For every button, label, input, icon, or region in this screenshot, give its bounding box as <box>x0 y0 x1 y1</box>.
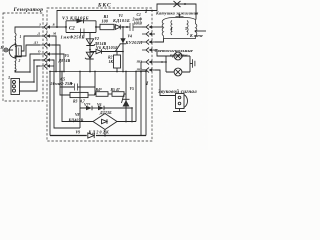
wire r6 inside down <box>142 70 146 136</box>
svg-text:БКС: БКС <box>97 3 112 9</box>
resistor R4 <box>96 92 108 97</box>
contact r4 <box>142 48 155 53</box>
resistor R5 <box>112 92 124 97</box>
wire r4 to lamps top <box>155 50 166 56</box>
diode V6b <box>98 106 104 110</box>
svg-text:V3 КД105Б: V3 КД105Б <box>62 16 89 21</box>
wire row3 to bus <box>52 45 60 72</box>
svg-text:V6 КД105Б: V6 КД105Б <box>96 45 118 50</box>
gate V5 <box>122 94 125 103</box>
svg-text:2: 2 <box>18 59 21 63</box>
thyristor V4 <box>120 38 125 43</box>
switch X <box>174 1 181 7</box>
wire gen row3 <box>15 45 40 58</box>
wire horn feed <box>155 70 176 96</box>
wire r5 inside down <box>141 62 142 136</box>
diode V9 <box>87 133 96 139</box>
main bus <box>50 71 146 73</box>
svg-text:Звуковой сигнал: Звуковой сигнал <box>157 89 197 95</box>
wire to V6 <box>90 50 96 52</box>
capacitor C5 / resistor R3 loop <box>60 72 74 88</box>
node A <box>122 26 124 28</box>
wire K sveche <box>196 30 207 32</box>
wire to R4 <box>95 93 96 95</box>
svg-text:Д1: Д1 <box>33 41 38 45</box>
svg-text:50мкФ 25В: 50мкФ 25В <box>51 81 73 86</box>
wire top bus <box>57 4 196 27</box>
contact r3 <box>142 40 155 45</box>
svg-text:R4*: R4* <box>96 88 102 92</box>
wire gen row6 <box>19 66 40 91</box>
wire row2 to bus <box>52 36 56 72</box>
contact r5 <box>142 60 155 65</box>
svg-text:4: 4 <box>170 27 173 31</box>
wire gen row1 <box>15 27 40 33</box>
thyristor V5 <box>125 72 127 122</box>
svg-text:V6: V6 <box>97 103 102 107</box>
svg-text:1: 1 <box>20 35 22 39</box>
svg-text:Катушка зажигания: Катушка зажигания <box>155 11 199 16</box>
svg-text:КУ202Н: КУ202Н <box>125 40 143 45</box>
contact r6 <box>142 68 155 73</box>
generator dashed box <box>3 13 43 101</box>
svg-text:V5: V5 <box>130 87 135 91</box>
svg-text:К свече: К свече <box>189 33 203 38</box>
connector left column: 6 pin-socket contacts <box>40 25 52 69</box>
wire row5 stub <box>52 60 54 72</box>
capacitor C2 plates <box>81 29 85 37</box>
junction dots generator wires <box>29 71 31 73</box>
svg-text:V5: V5 <box>65 54 70 58</box>
svg-text:Ш2: Ш2 <box>136 60 143 64</box>
resistor R2 <box>114 55 121 68</box>
svg-text:R2: R2 <box>108 56 113 60</box>
node dot on switch wire <box>184 3 186 5</box>
bus node dots <box>55 71 57 73</box>
zener V5 <box>86 52 93 58</box>
ignition coil <box>162 14 197 38</box>
svg-text:КЦ402В: КЦ402В <box>68 118 84 122</box>
bold ground line <box>50 135 146 137</box>
contact row3 <box>40 43 52 48</box>
svg-text:V7*: V7* <box>84 103 90 107</box>
wire row1 into block <box>52 26 66 28</box>
contact row4 <box>40 52 52 57</box>
svg-text:Д814В: Д814В <box>58 59 71 63</box>
diode V1 <box>115 25 120 30</box>
wire row6 stub <box>52 65 54 67</box>
gate V4 <box>116 44 121 51</box>
svg-text:З: З <box>38 23 41 27</box>
BKS dashed box <box>47 8 152 141</box>
diode V7 <box>80 72 86 109</box>
svg-text:R3: R3 <box>73 100 78 104</box>
horn <box>173 94 187 112</box>
wire coil return <box>155 39 164 43</box>
contact r2 <box>142 32 155 37</box>
wire gen row2 <box>21 36 40 51</box>
svg-text:Генератор: Генератор <box>13 7 44 13</box>
svg-text:КД105Б: КД105Б <box>112 18 130 23</box>
svg-text:R5 47: R5 47 <box>111 88 121 92</box>
wire gen row5 <box>19 60 40 82</box>
diode V3 <box>77 18 84 23</box>
coil 3 <box>11 79 20 95</box>
capacitor C2 / diode V3 parallel box <box>66 18 96 36</box>
coil 1 <box>15 33 16 47</box>
svg-text:V9: V9 <box>76 130 81 135</box>
svg-text:3: 3 <box>7 76 10 80</box>
svg-text:V2: V2 <box>95 37 100 41</box>
svg-text:1мкФ250В: 1мкФ250В <box>61 35 85 40</box>
coil 2 <box>15 58 16 72</box>
node tap <box>89 49 91 51</box>
wire primary feed <box>155 26 164 28</box>
node dot top corner <box>56 26 58 28</box>
wire vertical x132 <box>131 108 133 122</box>
generator rotor <box>9 45 16 59</box>
svg-text:С2: С2 <box>69 27 75 32</box>
wire vertical x136 <box>135 72 137 122</box>
junction dots on main wire <box>65 26 67 28</box>
connector right column: 6 contacts <box>142 25 155 73</box>
svg-text:Ш1: Ш1 <box>136 68 143 72</box>
contact r1 <box>142 25 155 30</box>
resistor R3 <box>70 92 88 97</box>
wire bridge right <box>117 121 136 123</box>
wire row4 to bus <box>52 54 64 72</box>
wire <box>8 49 13 51</box>
wire lamp feed <box>155 61 166 63</box>
wire nested return <box>54 72 80 129</box>
svg-text:100: 100 <box>102 18 109 23</box>
svg-text:160В: 160В <box>134 22 143 26</box>
svg-text:1К: 1К <box>109 60 114 64</box>
zener V2 <box>89 33 91 72</box>
capacitor C1 <box>130 23 133 31</box>
resistor R1 <box>100 24 114 29</box>
contact row5 <box>40 58 52 63</box>
contact row2 <box>40 34 52 39</box>
lamps block <box>166 52 195 76</box>
bridge rectifier V8 <box>62 72 93 122</box>
wire gen row4 <box>15 54 40 72</box>
svg-text:КД202К: КД202К <box>88 130 110 135</box>
svg-text:V4: V4 <box>128 35 133 39</box>
svg-text:V8: V8 <box>75 113 80 117</box>
svg-text:Д223Б: Д223Б <box>99 111 112 115</box>
svg-text:приборы: приборы <box>170 53 188 58</box>
contact row6 <box>40 64 52 69</box>
svg-text:5: 5 <box>185 27 187 31</box>
wire bridge bottom <box>104 130 106 136</box>
contact row1 <box>40 25 52 30</box>
node M terminal <box>4 48 8 52</box>
wire <box>96 26 115 28</box>
diode V6 <box>96 49 102 53</box>
